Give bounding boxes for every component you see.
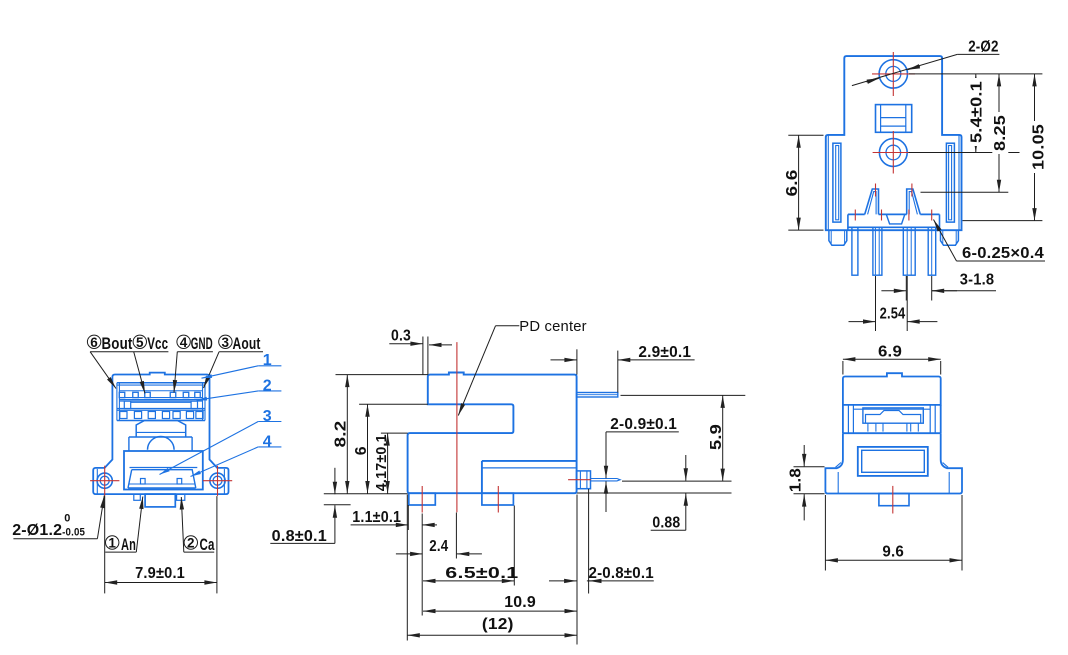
svg-text:1.1±0.1: 1.1±0.1 xyxy=(352,509,401,526)
svg-text:6.5±0.1: 6.5±0.1 xyxy=(445,565,518,582)
svg-text:8.2: 8.2 xyxy=(333,421,350,448)
svg-text:5: 5 xyxy=(136,335,144,350)
svg-text:10.05: 10.05 xyxy=(1030,124,1047,170)
svg-text:0.88: 0.88 xyxy=(652,515,680,532)
svg-text:2: 2 xyxy=(263,377,272,394)
svg-text:4.17±0.1: 4.17±0.1 xyxy=(373,434,390,491)
svg-text:Bout: Bout xyxy=(102,334,133,353)
svg-text:5.9: 5.9 xyxy=(708,424,725,450)
svg-text:6-0.25×0.4: 6-0.25×0.4 xyxy=(962,245,1044,262)
svg-text:Aout: Aout xyxy=(233,334,261,353)
svg-text:3: 3 xyxy=(263,408,272,425)
svg-text:7.9±0.1: 7.9±0.1 xyxy=(135,565,185,582)
svg-text:1.8: 1.8 xyxy=(788,468,805,492)
svg-text:8.25: 8.25 xyxy=(992,115,1009,151)
svg-text:6.9: 6.9 xyxy=(878,344,902,361)
svg-text:4: 4 xyxy=(180,335,188,350)
svg-text:0.3: 0.3 xyxy=(391,328,411,345)
svg-text:3-1.8: 3-1.8 xyxy=(960,272,994,289)
svg-text:0: 0 xyxy=(64,513,70,525)
svg-text:0.8±0.1: 0.8±0.1 xyxy=(272,528,327,545)
svg-text:9.6: 9.6 xyxy=(882,544,904,561)
svg-text:2-Ø2: 2-Ø2 xyxy=(968,39,998,56)
svg-text:GND: GND xyxy=(191,334,213,353)
svg-text:4: 4 xyxy=(263,433,272,450)
svg-text:2: 2 xyxy=(187,536,195,551)
svg-text:6.6: 6.6 xyxy=(784,170,801,197)
svg-text:6: 6 xyxy=(353,446,370,455)
svg-text:6: 6 xyxy=(90,335,98,350)
svg-text:1: 1 xyxy=(263,352,272,369)
svg-text:2.54: 2.54 xyxy=(880,306,906,323)
svg-text:Vcc: Vcc xyxy=(147,334,168,353)
svg-text:PD center: PD center xyxy=(519,318,587,335)
svg-text:2-0.9±0.1: 2-0.9±0.1 xyxy=(610,416,677,433)
svg-text:Ca: Ca xyxy=(200,535,215,554)
svg-text:10.9: 10.9 xyxy=(504,594,536,611)
svg-text:5.4±0.1: 5.4±0.1 xyxy=(969,81,986,143)
svg-text:2-Ø1.2: 2-Ø1.2 xyxy=(12,522,62,539)
svg-text:(12): (12) xyxy=(482,616,514,633)
svg-text:-0.05: -0.05 xyxy=(62,527,85,539)
svg-text:An: An xyxy=(121,535,136,554)
svg-text:3: 3 xyxy=(222,335,230,350)
svg-text:2.9±0.1: 2.9±0.1 xyxy=(638,344,691,361)
svg-text:1: 1 xyxy=(108,536,116,551)
svg-text:2-0.8±0.1: 2-0.8±0.1 xyxy=(589,565,654,582)
svg-text:2.4: 2.4 xyxy=(429,538,448,555)
